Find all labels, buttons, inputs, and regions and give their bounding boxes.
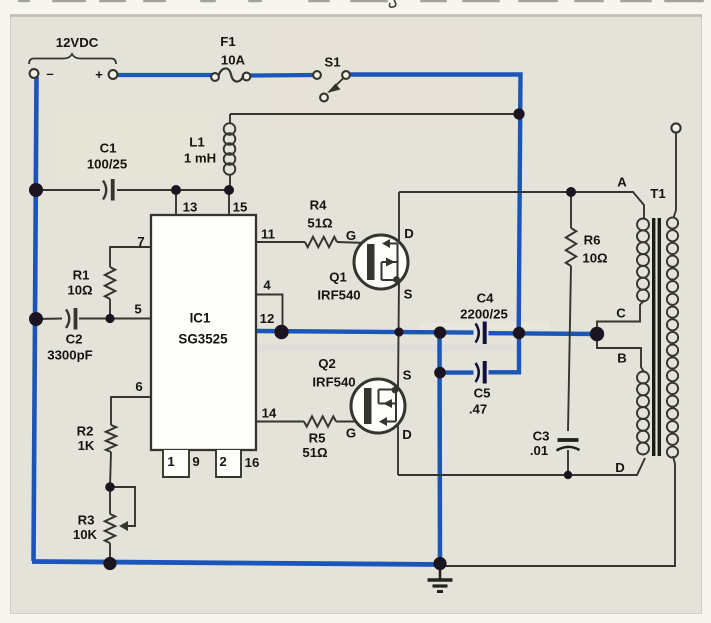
wire: pin12 / source rail (blue, horizontal mid) <box>256 331 474 333</box>
wire: R1 bottom to pin5 node <box>109 299 111 318</box>
T1 secondary winding <box>667 217 678 457</box>
svg-text:Q2: Q2 <box>318 356 336 371</box>
svg-text:D: D <box>402 427 412 442</box>
svg-text:L1: L1 <box>189 135 204 150</box>
svg-text:C3: C3 <box>533 429 550 444</box>
capacitor C1 <box>103 179 113 201</box>
wire: switch S1 to right vertical +12V drop (blue) <box>349 75 521 333</box>
svg-text:C2: C2 <box>66 332 83 347</box>
svg-text:S: S <box>404 287 413 302</box>
wire: R4 to Q1 gate <box>337 242 367 243</box>
svg-text:IRF540: IRF540 <box>317 288 360 303</box>
junction <box>590 327 604 341</box>
wire: secondary bottom return to ground rail <box>443 456 675 566</box>
T1 primary lower winding (B-D) <box>637 372 649 455</box>
junction <box>513 108 524 119</box>
svg-text:R4: R4 <box>310 198 328 213</box>
svg-text:7: 7 <box>137 234 144 249</box>
svg-text:IRF540: IRF540 <box>312 375 355 390</box>
svg-text:B: B <box>617 351 627 366</box>
wire: Q2 drain down to D rail <box>397 421 399 475</box>
wire: pin 13 lead <box>175 190 177 215</box>
wire: ground bottom rail (blue) <box>32 562 440 565</box>
junction <box>513 327 525 339</box>
resistor R6 <box>570 192 572 228</box>
svg-text:10A: 10A <box>221 53 246 68</box>
wire: pin 6 lead <box>111 397 151 425</box>
resistor R1 <box>105 267 115 299</box>
svg-text:C1: C1 <box>100 141 117 156</box>
junction <box>29 312 43 326</box>
svg-text:4: 4 <box>263 278 271 293</box>
svg-text:13: 13 <box>183 200 198 215</box>
svg-text:D: D <box>404 226 414 241</box>
fuse F1 <box>211 68 250 81</box>
svg-text:C: C <box>616 306 626 321</box>
potentiometer R3 <box>105 514 115 543</box>
svg-text:S: S <box>403 368 412 383</box>
junction <box>105 314 114 323</box>
junction <box>564 471 572 479</box>
svg-text:R5: R5 <box>309 431 326 446</box>
wire: battery negative rail (blue, left side) <box>34 77 37 561</box>
svg-text:51Ω: 51Ω <box>307 216 333 231</box>
svg-text:2: 2 <box>219 454 226 469</box>
junction <box>433 557 446 570</box>
svg-text:+: + <box>95 67 103 82</box>
wire: centre vertical to ground (blue) <box>437 332 442 564</box>
transistor Q1 IRF540 <box>354 235 408 289</box>
svg-text:G: G <box>346 426 356 441</box>
wire: pin 14 lead to R5 <box>256 421 304 423</box>
IC U1 SG3525 body <box>151 215 256 450</box>
resistor R2 <box>106 425 116 452</box>
wire: pin 7 lead <box>110 247 151 267</box>
capacitor C4 <box>476 322 485 345</box>
svg-text:1: 1 <box>167 454 174 469</box>
svg-text:SG3525: SG3525 <box>178 332 228 347</box>
resistor R5 <box>304 416 336 426</box>
svg-text:2200/25: 2200/25 <box>460 307 508 322</box>
wire: node A rail (Q1 drain to T1) <box>399 192 644 219</box>
scan tint patches <box>270 20 480 135</box>
junction <box>105 482 115 492</box>
wire: pin 5 lead <box>36 318 151 321</box>
svg-text:10Ω: 10Ω <box>582 251 608 266</box>
wire: R5 to Q2 gate <box>336 421 366 423</box>
wire: R3 wiper loop <box>110 487 135 526</box>
T1 primary upper winding (A-C) <box>637 219 649 302</box>
svg-text:R6: R6 <box>584 233 601 248</box>
junction <box>274 325 288 339</box>
wire: R6 bottom to C3 <box>568 266 571 431</box>
svg-text:100/25: 100/25 <box>87 157 127 172</box>
svg-text:51Ω: 51Ω <box>302 445 328 460</box>
junction <box>434 367 446 379</box>
junction <box>566 187 576 197</box>
capacitor C3 <box>557 440 580 451</box>
svg-text:A: A <box>617 175 627 190</box>
svg-text:T1: T1 <box>650 186 665 201</box>
svg-text:3300pF: 3300pF <box>47 348 92 363</box>
output terminal (secondary top) <box>674 133 677 218</box>
transistor Q2 IRF540 <box>351 379 405 433</box>
inductor L1 <box>224 114 236 190</box>
wire: R2 bottom to R3 <box>110 452 111 487</box>
svg-text:12: 12 <box>260 311 275 326</box>
cropped text line from page above <box>18 0 30 2</box>
wire: C4 right plate to T1 centre tap (blue) <box>489 331 598 336</box>
wire: +12V top rail battery to fuse (blue) <box>117 73 212 77</box>
wire: Q1 source / Q2 source vertical <box>398 280 399 390</box>
svg-text:15: 15 <box>233 200 248 215</box>
capacitor C5 <box>476 361 485 384</box>
svg-text:10Ω: 10Ω <box>67 283 93 298</box>
svg-text:C4: C4 <box>477 291 495 306</box>
ground symbol <box>428 566 453 592</box>
capacitor C2 <box>66 308 76 330</box>
svg-text:9: 9 <box>192 454 199 469</box>
svg-text:1K: 1K <box>78 438 95 453</box>
junction <box>224 185 234 195</box>
junction <box>103 557 116 570</box>
svg-text:R3: R3 <box>78 513 95 528</box>
svg-text:R2: R2 <box>77 424 94 439</box>
wire: C5 right plate up to +12V node (blue) <box>489 332 520 372</box>
svg-text:IC1: IC1 <box>190 311 211 326</box>
wire: Q1 drain to A rail <box>398 192 400 243</box>
wire: C5 branch left (blue) <box>440 370 474 374</box>
svg-text:–: – <box>46 66 53 81</box>
svg-text:D: D <box>615 460 625 475</box>
battery 12VDC terminals <box>29 54 117 79</box>
svg-text:1 mH: 1 mH <box>184 151 216 166</box>
junction <box>29 183 43 197</box>
T1 core <box>652 218 655 456</box>
svg-text:16: 16 <box>245 455 260 470</box>
svg-text:Q1: Q1 <box>329 270 347 285</box>
wire: node D rail (Q2 drain to T1) <box>398 458 645 475</box>
wire: R3 top lead <box>109 487 111 514</box>
junction <box>171 185 181 195</box>
resistor R4 <box>305 237 337 247</box>
svg-text:G: G <box>346 228 356 243</box>
wire: pin 11 lead to R4 <box>256 241 305 243</box>
svg-text:5: 5 <box>134 302 141 317</box>
svg-text:S1: S1 <box>324 55 340 70</box>
svg-text:6: 6 <box>135 379 142 394</box>
svg-text:R1: R1 <box>73 268 90 283</box>
IC bottom tab pin 1 <box>163 450 189 477</box>
wire: fuse to switch S1 (blue) <box>250 73 314 78</box>
IC bottom tab pin 2 <box>216 450 241 477</box>
junction <box>394 327 403 336</box>
svg-text:10K: 10K <box>73 527 98 542</box>
wire: T1 centre tap B lead <box>597 340 644 372</box>
wire: C1 / pin13 / pin15 node (y190) <box>35 189 229 191</box>
svg-text:12VDC: 12VDC <box>56 35 99 50</box>
svg-text:F1: F1 <box>220 34 235 49</box>
switch S1 <box>313 71 350 101</box>
svg-text:.47: .47 <box>469 402 487 417</box>
wire: T1 centre tap C lead <box>597 300 644 328</box>
wire: L1 top to +12V junction <box>230 113 519 115</box>
wire: R3 bottom to ground rail <box>109 543 111 563</box>
wire: pin 4 jog to pin 12 net <box>256 295 283 331</box>
svg-text:.01: .01 <box>530 443 548 458</box>
svg-text:C5: C5 <box>474 386 491 401</box>
svg-text:14: 14 <box>262 406 277 421</box>
wire: pin 15 lead <box>228 190 230 215</box>
svg-text:11: 11 <box>261 227 275 242</box>
junction <box>434 326 446 338</box>
